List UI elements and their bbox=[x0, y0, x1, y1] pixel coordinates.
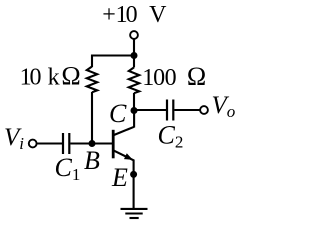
node Vi input terminal bbox=[4, 124, 37, 153]
emitter arrowhead bbox=[124, 153, 133, 160]
wire right branch top lead bbox=[133, 56, 135, 68]
node C junction bbox=[131, 107, 138, 114]
wire C node to C2 bbox=[134, 109, 166, 111]
wire emitter vertical to ground bbox=[133, 160, 135, 210]
base bar bbox=[112, 130, 115, 159]
wire supply terminal to junction bbox=[133, 39, 135, 56]
node Vo output terminal bbox=[200, 92, 235, 121]
svg-text:B: B bbox=[84, 146, 100, 175]
wire left branch bottom lead to base node bbox=[91, 92, 93, 144]
svg-text:C1: C1 bbox=[55, 153, 81, 184]
transistor Q1 bbox=[113, 127, 134, 161]
collector diagonal bbox=[113, 127, 134, 136]
svg-text:Vo: Vo bbox=[212, 92, 236, 121]
ground bbox=[121, 209, 148, 218]
wire C1 to base bbox=[70, 142, 112, 144]
capacitor C1 bbox=[55, 133, 81, 184]
svg-text:C: C bbox=[109, 99, 127, 128]
wire collector vertical bbox=[133, 111, 135, 128]
resistor R2 100Ω bbox=[129, 62, 206, 93]
node E junction bbox=[130, 171, 137, 178]
capacitor C2 bbox=[158, 100, 184, 152]
svg-text:Vi: Vi bbox=[4, 124, 24, 153]
svg-text:10kΩ: 10kΩ bbox=[20, 61, 81, 90]
wire left branch top lead bbox=[91, 55, 93, 68]
svg-text:E: E bbox=[111, 163, 128, 192]
svg-text:C2: C2 bbox=[158, 121, 184, 152]
svg-text:+10V: +10V bbox=[102, 2, 167, 28]
node supply junction bbox=[131, 52, 138, 59]
wire right branch bottom lead to C node bbox=[133, 93, 135, 111]
node B junction bbox=[89, 140, 96, 147]
wire supply junction to left branch bbox=[91, 54, 134, 56]
node +10V supply terminal bbox=[102, 2, 167, 39]
resistor R1 10kΩ bbox=[20, 61, 98, 92]
wire C2 to Vo bbox=[174, 109, 200, 111]
wire Vi to C1 bbox=[36, 142, 62, 144]
svg-text:100Ω: 100Ω bbox=[142, 62, 206, 91]
emitter diagonal bbox=[113, 150, 134, 160]
